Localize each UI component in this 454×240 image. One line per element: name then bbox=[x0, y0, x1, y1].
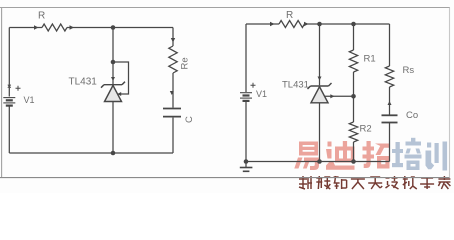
svg-text:V1: V1 bbox=[24, 95, 35, 105]
svg-text:TL431: TL431 bbox=[69, 77, 98, 88]
svg-text:R: R bbox=[38, 11, 45, 22]
svg-text:TL431: TL431 bbox=[282, 80, 309, 91]
svg-text:Re: Re bbox=[180, 57, 191, 69]
svg-text:R2: R2 bbox=[360, 124, 372, 135]
svg-text:V1: V1 bbox=[256, 89, 267, 99]
svg-text:Rs: Rs bbox=[403, 65, 415, 76]
svg-text:R1: R1 bbox=[364, 54, 376, 65]
svg-text:R: R bbox=[286, 10, 293, 21]
svg-text:C: C bbox=[184, 116, 195, 123]
svg-text:Co: Co bbox=[406, 110, 418, 121]
